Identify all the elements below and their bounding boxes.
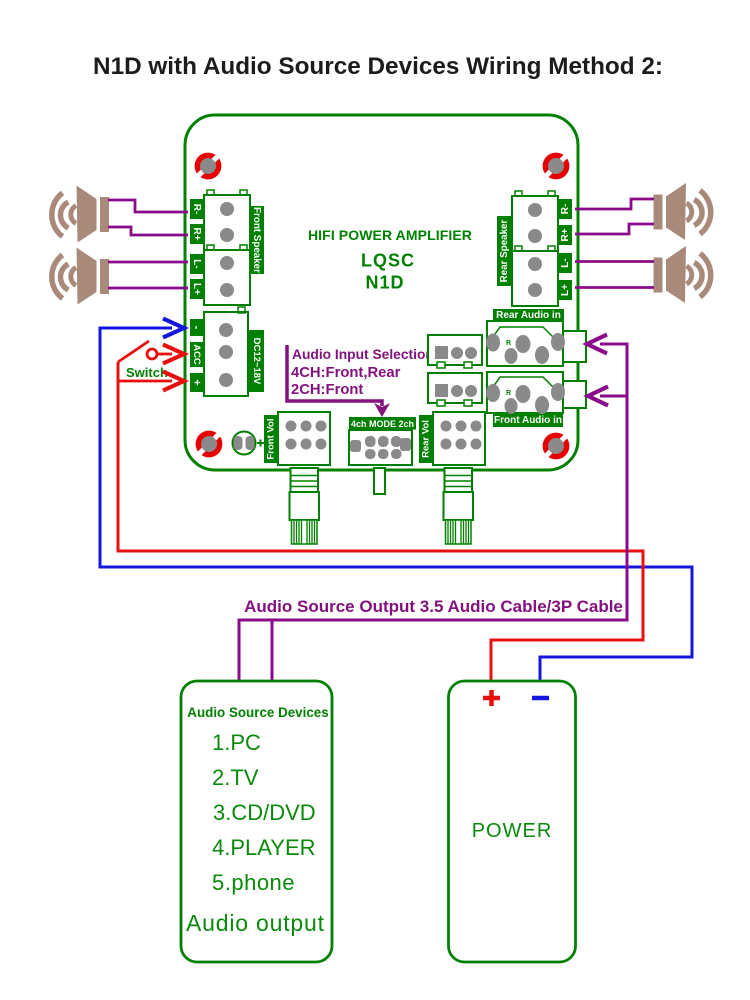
wire SP1 to R-: [108, 200, 188, 212]
minus terminal: [532, 696, 549, 701]
front audio jack J5: [486, 372, 586, 414]
svg-text:5.phone: 5.phone: [212, 870, 295, 895]
mounting hole TL: [195, 153, 222, 180]
svg-text:4CH:Front,Rear: 4CH:Front,Rear: [291, 365, 401, 381]
mounting hole BR: [543, 433, 570, 460]
wire SP2 to L-: [108, 261, 188, 264]
svg-text:L-: L-: [191, 259, 202, 268]
label Rear Audio in: [493, 309, 564, 322]
svg-text:HIFI POWER AMPLIFIER: HIFI POWER AMPLIFIER: [308, 227, 472, 243]
wire SP3 to R+ rear: [575, 224, 654, 234]
mounting hole BL: [196, 431, 223, 458]
terminal label minus: [190, 319, 203, 336]
speaker SP1 (front left top): [52, 186, 109, 243]
jumper block 4ch mode: [349, 430, 412, 465]
speaker SP4 (rear right bottom): [654, 246, 711, 303]
power box: [449, 681, 576, 962]
svg-text:Audio Source Output 3.5 Audio: Audio Source Output 3.5 Audio Cable/3P C…: [244, 597, 623, 616]
amplifier board outline: [185, 115, 578, 470]
label Rear Speaker: [497, 216, 512, 286]
potentiometer VR1: [290, 468, 320, 544]
terminal label L- rear: [559, 253, 572, 273]
svg-text:2.TV: 2.TV: [212, 765, 259, 790]
blue wire DC minus: [100, 328, 692, 681]
svg-text:Rear Vol: Rear Vol: [421, 420, 432, 458]
red wire plus arrow: [118, 380, 172, 383]
purple wire second drop: [271, 620, 274, 682]
svg-text:R+: R+: [191, 227, 202, 240]
header H1: [428, 335, 482, 368]
rear audio jack J4: [486, 321, 586, 366]
svg-text:-: -: [191, 326, 203, 330]
svg-text:2CH:Front: 2CH:Front: [291, 382, 363, 398]
svg-text:POWER: POWER: [472, 820, 553, 842]
jumper tail: [374, 468, 385, 494]
terminal label L+: [190, 279, 203, 299]
terminal label L+ rear: [559, 280, 572, 300]
front speaker terminal block J1: [204, 190, 250, 305]
terminal label R- rear: [559, 199, 572, 219]
svg-text:Front Audio in: Front Audio in: [494, 415, 562, 426]
svg-text:DC12~18V: DC12~18V: [251, 338, 262, 385]
svg-text:3.CD/DVD: 3.CD/DVD: [213, 800, 316, 825]
svg-text:R: R: [506, 390, 511, 397]
terminal label plus: [190, 373, 203, 392]
purple branch front audio: [600, 395, 627, 398]
svg-text:L+: L+: [560, 284, 571, 296]
switch SW1: [147, 349, 157, 359]
svg-text:1.PC: 1.PC: [212, 730, 261, 755]
label Rear Vol: [419, 415, 433, 463]
terminal label ACC: [190, 342, 203, 367]
svg-text:R-: R-: [191, 204, 202, 215]
purple annotation Audio Input Selection: [291, 347, 434, 398]
svg-text:L-: L-: [560, 258, 571, 267]
svg-text:4.PLAYER: 4.PLAYER: [212, 835, 316, 860]
plus terminal: [483, 690, 500, 706]
blue arrowhead: [163, 319, 184, 338]
svg-text:R+: R+: [560, 228, 571, 241]
label 4ch MODE 2ch: [349, 417, 416, 430]
annotation arrowhead: [374, 403, 390, 417]
rear volume header: [433, 412, 485, 465]
svg-text:Front Speaker: Front Speaker: [251, 207, 262, 273]
svg-text:LQSC: LQSC: [361, 251, 415, 271]
svg-text:R: R: [506, 340, 511, 347]
svg-text:N1D with Audio Source Devices: N1D with Audio Source Devices Wiring Met…: [93, 53, 663, 80]
label Front Audio in: [493, 414, 563, 427]
potentiometer VR2: [444, 468, 474, 544]
svg-text:L+: L+: [191, 283, 202, 295]
purple audio wire: [239, 344, 627, 682]
annotation pointer polyline: [287, 345, 382, 406]
svg-text:Audio Input Selection: Audio Input Selection: [292, 347, 434, 362]
svg-text:Rear Speaker: Rear Speaker: [499, 220, 510, 283]
wire SP4 to L- rear: [575, 260, 654, 263]
svg-text:Audio Source Devices: Audio Source Devices: [187, 705, 328, 720]
speaker SP3 (rear right top): [654, 183, 711, 240]
front volume header: [278, 412, 330, 465]
svg-text:N1D: N1D: [365, 273, 404, 293]
red wire ACC arrow: [157, 353, 172, 356]
terminal label R+ rear: [559, 225, 572, 245]
LED D1: [233, 432, 265, 455]
svg-text:Switch: Switch: [126, 365, 168, 380]
header H2: [428, 373, 482, 406]
switch lever: [118, 341, 149, 362]
svg-text:Rear Audio in: Rear Audio in: [496, 310, 561, 321]
terminal label R-: [190, 199, 203, 219]
wire SP2 to L+: [108, 287, 188, 290]
svg-text:R-: R-: [560, 204, 571, 215]
audio source devices box: [181, 681, 332, 962]
DC power terminal block J3: [204, 307, 248, 396]
rear speaker terminal block J2: [512, 191, 558, 306]
wire SP4 to L+ rear: [575, 286, 654, 289]
svg-text:4ch MODE 2ch: 4ch MODE 2ch: [351, 419, 414, 429]
red power wire: [118, 362, 643, 681]
svg-text:ACC: ACC: [191, 344, 202, 365]
svg-text:Audio output: Audio output: [186, 910, 325, 936]
wire SP3 to R- rear: [575, 199, 654, 209]
terminal label R+: [190, 224, 203, 244]
label Front Speaker: [249, 206, 264, 274]
purple arrowhead rear audio: [587, 335, 607, 354]
purple arrowhead front audio: [588, 387, 608, 406]
mounting hole TR: [543, 153, 570, 180]
svg-text:Front Vol: Front Vol: [266, 419, 277, 460]
wire SP1 to R+: [108, 227, 188, 235]
label Front Vol: [264, 415, 278, 463]
speaker SP2 (front left bottom): [52, 248, 109, 305]
terminal label L-: [190, 254, 203, 274]
label DC12~18V: [249, 330, 264, 392]
svg-text:+: +: [191, 379, 203, 385]
